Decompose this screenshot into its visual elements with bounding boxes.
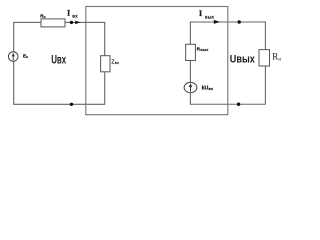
svg-text:kUвх: kUвх — [202, 86, 214, 92]
two-port network box — [86, 7, 228, 115]
svg-text:вых: вых — [205, 15, 215, 20]
svg-text:вх: вх — [72, 13, 78, 18]
current source arrow — [190, 85, 192, 92]
node dot: output top terminal — [238, 20, 241, 23]
wire: input loop (source loop with Z branch) — [14, 22, 105, 104]
load resistor Rn — [259, 50, 270, 66]
resistor R1 (Rc source resistance) — [41, 19, 65, 27]
svg-text:Rвых: Rвых — [197, 46, 210, 52]
wire: output loop (Rout branch to load) — [190, 22, 265, 104]
svg-text:Rс: Rс — [40, 14, 45, 20]
arrow Iin — [75, 21, 80, 24]
EMF arrow — [12, 55, 14, 61]
impedance Zin box — [101, 56, 110, 72]
svg-text:Eс: Eс — [23, 54, 28, 60]
svg-text:Zвх: Zвх — [111, 59, 119, 65]
EMF source E1 circle — [8, 52, 18, 62]
current source kUvx circle — [184, 82, 197, 92]
arrow Iout — [214, 20, 220, 24]
resistor Rout — [186, 44, 196, 60]
node dot: output bottom terminal — [237, 103, 240, 106]
node dot: input top terminal — [70, 21, 73, 24]
svg-text:Uвых: Uвых — [230, 53, 256, 65]
node dot: input bottom terminal — [70, 103, 73, 106]
svg-text:I: I — [67, 9, 70, 18]
svg-text:Uвх: Uвх — [51, 52, 66, 66]
